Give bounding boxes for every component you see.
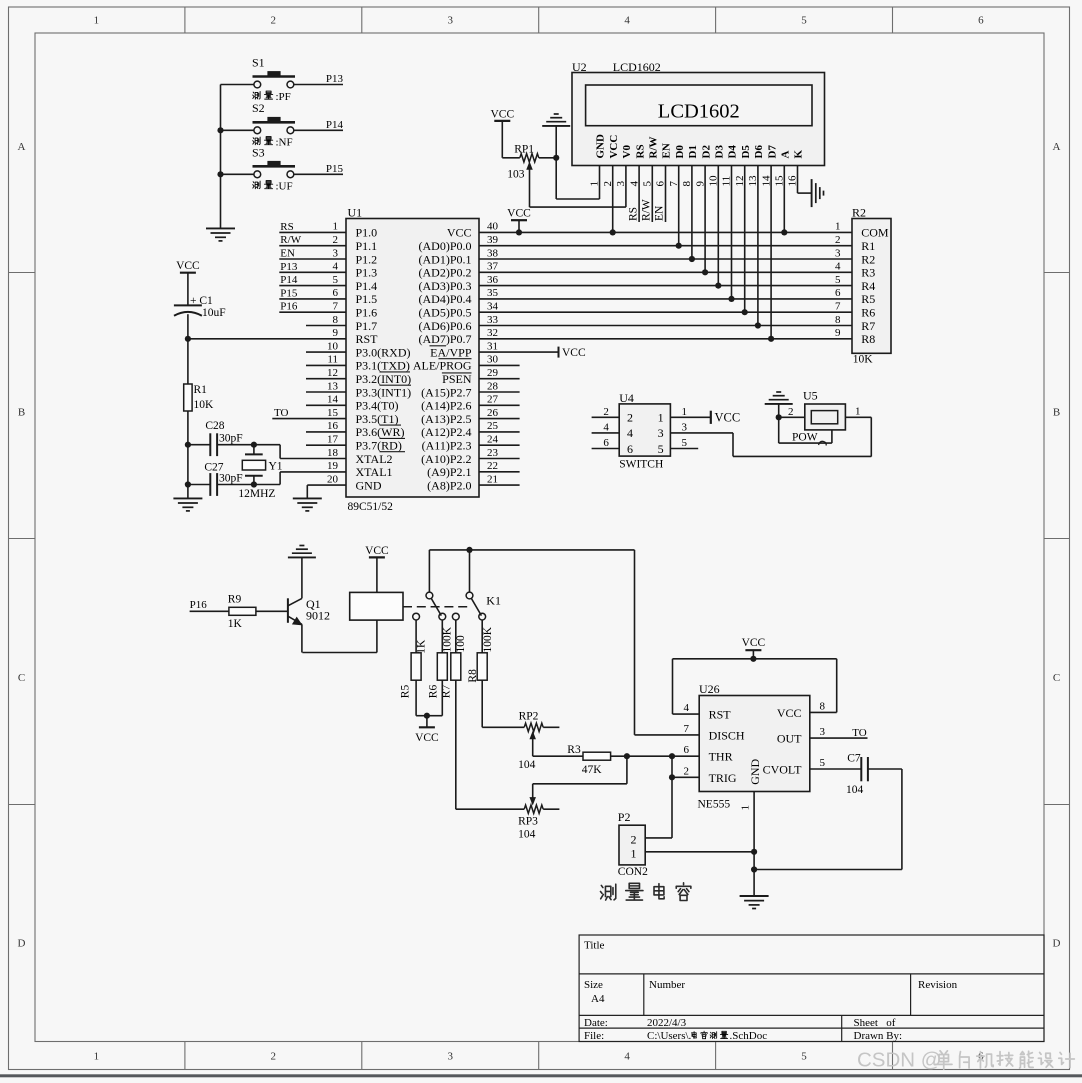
wire RP2 wiper to R3 xyxy=(533,755,583,757)
relay contact pole A xyxy=(426,592,433,599)
svg-text:89C51/52: 89C51/52 xyxy=(348,501,394,513)
svg-text:SWITCH: SWITCH xyxy=(619,459,663,471)
svg-text:23: 23 xyxy=(487,447,499,459)
junction D7 xyxy=(768,336,774,342)
svg-text:P3.4(T0): P3.4(T0) xyxy=(356,399,399,413)
wire LCD pin3 V0 to RP1 wiper xyxy=(625,166,627,208)
wire RP3 right open xyxy=(543,808,559,810)
svg-text:P1.6: P1.6 xyxy=(356,306,378,320)
svg-text:R6: R6 xyxy=(861,306,875,320)
wire crystal bottom to U1 XTAL1 xyxy=(279,472,281,485)
junction D1 xyxy=(689,256,695,262)
potentiometer RP2 xyxy=(524,723,543,731)
svg-text:7: 7 xyxy=(684,723,690,735)
svg-text:38: 38 xyxy=(487,247,499,259)
junction D4 xyxy=(728,296,734,302)
svg-text:CVOLT: CVOLT xyxy=(763,762,803,776)
svg-text:P3.3(INT1): P3.3(INT1) xyxy=(356,385,412,399)
svg-text:R4: R4 xyxy=(861,279,875,293)
wire K1 contact to R8 xyxy=(481,620,483,653)
svg-text:P3.1(TXD): P3.1(TXD) xyxy=(356,359,410,373)
junction D6 xyxy=(755,322,761,328)
svg-text:C: C xyxy=(1053,672,1060,684)
svg-text:EN: EN xyxy=(654,205,666,221)
wire crystal top to U1 XTAL2 xyxy=(279,445,281,459)
wire LCD pin11 D4 to rail6 xyxy=(731,166,733,299)
svg-text:104: 104 xyxy=(846,784,864,796)
wire NE555 GND pin xyxy=(753,792,755,870)
svg-text:32: 32 xyxy=(487,327,498,339)
pin stub U1 pin16 xyxy=(306,431,346,433)
wire RP1 right to gnd stem xyxy=(539,157,556,159)
svg-text:(AD0)P0.0: (AD0)P0.0 xyxy=(419,239,472,253)
svg-text:Sheet of: Sheet of xyxy=(854,1017,896,1029)
svg-text:P16: P16 xyxy=(190,599,208,611)
resistor R5 xyxy=(411,653,421,680)
svg-text:EN: EN xyxy=(280,248,295,260)
svg-text:P3.5(T1): P3.5(T1) xyxy=(356,412,399,426)
svg-text:Drawn By:: Drawn By: xyxy=(854,1030,903,1042)
svg-text:P1.0: P1.0 xyxy=(356,226,378,240)
svg-text:9: 9 xyxy=(835,327,841,339)
svg-text:R8: R8 xyxy=(861,332,875,346)
svg-text:24: 24 xyxy=(487,434,499,446)
svg-text:VCC: VCC xyxy=(507,208,531,220)
pin stub U1 pin25 xyxy=(479,431,520,433)
svg-text:R/W: R/W xyxy=(648,137,660,159)
svg-text:S3: S3 xyxy=(252,145,265,159)
svg-text:28: 28 xyxy=(487,380,499,392)
svg-text:RS: RS xyxy=(627,207,639,221)
svg-text:THR: THR xyxy=(709,750,733,764)
svg-text:R1: R1 xyxy=(861,239,875,253)
relay coil K1 xyxy=(350,592,403,620)
wire VCC to RP1 xyxy=(501,121,503,158)
junction P2 pin1 xyxy=(751,849,757,855)
svg-text:P15: P15 xyxy=(280,287,298,299)
capacitor C28 xyxy=(188,444,210,446)
svg-text:4: 4 xyxy=(835,261,841,273)
wire P0 rail row7 xyxy=(479,311,852,313)
svg-text:21: 21 xyxy=(487,473,498,485)
svg-text:P1.7: P1.7 xyxy=(356,319,378,333)
dashed link relay to contacts xyxy=(403,606,469,608)
svg-text:35: 35 xyxy=(487,287,499,299)
junction THR node xyxy=(669,753,675,759)
wire K1 contact to R7 xyxy=(455,620,457,653)
wire ground to U5 pin2 xyxy=(778,404,780,417)
wire Q1 emitter to ground xyxy=(301,557,303,598)
junction pole B rail xyxy=(466,547,472,553)
pin stub U1 pin12 xyxy=(306,378,346,380)
svg-text:P1.5: P1.5 xyxy=(356,292,378,306)
svg-text:2: 2 xyxy=(835,234,841,246)
svg-text:VCC: VCC xyxy=(176,260,200,272)
pin stub U1 pin22 xyxy=(479,471,520,473)
svg-text:VCC: VCC xyxy=(742,637,766,649)
svg-text:5: 5 xyxy=(333,274,339,286)
wire P13 from S1 xyxy=(221,84,254,86)
wire OUT pin3 net TO xyxy=(810,737,868,739)
wire rail to RST pin4 xyxy=(672,659,674,714)
svg-text:33: 33 xyxy=(487,314,499,326)
svg-text:(AD3)P0.3: (AD3)P0.3 xyxy=(419,279,472,293)
wire R3 node down to RP3 wiper xyxy=(626,756,628,784)
wire R7 down to RP3 xyxy=(455,680,457,809)
junction crystal top xyxy=(251,442,257,448)
wire R5 to VCC node xyxy=(415,680,417,716)
svg-text:12: 12 xyxy=(327,367,338,379)
svg-text:100K: 100K xyxy=(482,626,494,652)
ground NE555 xyxy=(753,870,755,897)
svg-text:30: 30 xyxy=(487,354,499,366)
svg-text:RP1: RP1 xyxy=(514,143,534,155)
svg-text:13: 13 xyxy=(327,380,339,392)
svg-text:22: 22 xyxy=(487,460,498,472)
svg-text:D: D xyxy=(18,938,26,950)
svg-text:104: 104 xyxy=(518,759,536,771)
RP3 wiper arrow xyxy=(529,797,536,806)
capacitor C27 xyxy=(188,484,210,486)
svg-text:19: 19 xyxy=(327,460,339,472)
wire P0 rail row4 xyxy=(479,271,852,273)
svg-text:S1: S1 xyxy=(252,56,265,70)
pin stub U1 pin30 xyxy=(479,364,520,366)
svg-text:1: 1 xyxy=(658,411,664,425)
svg-text:20: 20 xyxy=(327,473,339,485)
wire K1 contact to R6 xyxy=(441,620,443,653)
wire CVOLT pin5 to C7 xyxy=(810,768,862,770)
wire switch common bus xyxy=(220,85,222,229)
pin stub U4 pin5 xyxy=(670,448,698,450)
svg-text:1: 1 xyxy=(94,15,100,27)
svg-text:.SchDoc: .SchDoc xyxy=(730,1030,768,1042)
svg-text:(A15)P2.7: (A15)P2.7 xyxy=(421,385,471,399)
svg-text:Size: Size xyxy=(584,979,603,991)
wire P15 from S3 xyxy=(221,173,254,175)
svg-text:(AD7)P0.7: (AD7)P0.7 xyxy=(419,332,472,346)
svg-text:R7: R7 xyxy=(861,319,875,333)
ground LCD pin1 (flipped) xyxy=(542,125,570,127)
svg-text:1: 1 xyxy=(855,406,861,418)
svg-text:R6: R6 xyxy=(427,685,439,699)
svg-text:U5: U5 xyxy=(803,388,818,402)
svg-text:RST: RST xyxy=(356,332,379,346)
wire C28 to crystal top node xyxy=(217,444,280,446)
wire U1 pin31 EA to VCC xyxy=(479,351,559,353)
svg-text:VCC: VCC xyxy=(415,732,439,744)
resistor R6 xyxy=(437,653,447,680)
svg-text:17: 17 xyxy=(327,434,339,446)
wire LCD pin6 net EN xyxy=(665,166,667,223)
svg-text:XTAL2: XTAL2 xyxy=(356,452,393,466)
relay contact pole B xyxy=(466,592,473,599)
wire RST node to U1 pin9 xyxy=(188,338,346,340)
wire RP2 right open xyxy=(543,726,559,728)
svg-text:V0: V0 xyxy=(621,145,633,159)
svg-text:6: 6 xyxy=(684,744,690,756)
resistor R7 xyxy=(451,653,461,680)
ground LCD pin16 (sideways) xyxy=(811,179,813,207)
svg-text:EN: EN xyxy=(661,143,673,158)
svg-text:37: 37 xyxy=(487,261,499,273)
svg-text:(A11)P2.3: (A11)P2.3 xyxy=(422,439,472,453)
wire P0 rail row5 xyxy=(479,285,852,287)
svg-text:DISCH: DISCH xyxy=(709,729,745,743)
wire P0 rail row3 xyxy=(479,258,852,260)
svg-text:(A10)P2.2: (A10)P2.2 xyxy=(421,452,471,466)
pin stub U1 pin10 xyxy=(306,351,346,353)
wire R3 to THR node xyxy=(611,755,700,757)
wire bottom rail xyxy=(754,869,902,871)
svg-text:(A12)P2.4: (A12)P2.4 xyxy=(421,425,471,439)
svg-text:10uF: 10uF xyxy=(202,307,226,319)
svg-text:16: 16 xyxy=(327,420,339,432)
wire U1 pin7 net P16 xyxy=(279,311,346,313)
svg-text:3: 3 xyxy=(333,247,339,259)
svg-text:VCC: VCC xyxy=(715,411,741,425)
svg-text:36: 36 xyxy=(487,274,499,286)
svg-text:D7: D7 xyxy=(766,145,778,159)
svg-text:D1: D1 xyxy=(687,145,699,158)
svg-text:P2: P2 xyxy=(618,810,631,824)
svg-text:(AD2)P0.2: (AD2)P0.2 xyxy=(419,266,472,280)
junction VCC on rail1 xyxy=(516,229,522,235)
svg-text:TO: TO xyxy=(852,727,867,739)
svg-text:B: B xyxy=(1053,407,1060,419)
svg-text:D5: D5 xyxy=(740,145,752,159)
wire R8 down to RP2 xyxy=(481,680,483,727)
resistor R1 xyxy=(184,384,192,411)
svg-text:3: 3 xyxy=(447,15,453,27)
svg-text:P15: P15 xyxy=(326,163,344,175)
resistor network R2 xyxy=(852,219,891,354)
svg-text:Revision: Revision xyxy=(918,979,958,991)
svg-text:R5: R5 xyxy=(400,685,412,699)
svg-text:10K: 10K xyxy=(853,354,874,366)
wire P2 pin2 to TRIG xyxy=(645,837,672,839)
svg-text:R1: R1 xyxy=(194,384,208,396)
switch S2 xyxy=(253,121,296,124)
svg-text:Y1: Y1 xyxy=(269,461,283,473)
svg-text:VCC: VCC xyxy=(490,108,514,120)
svg-text:VCC: VCC xyxy=(365,545,389,557)
svg-text:K1: K1 xyxy=(486,594,501,608)
svg-text:A4: A4 xyxy=(591,993,605,1005)
junction S2 bus xyxy=(217,127,223,133)
svg-text:CSDN @: CSDN @ xyxy=(857,1049,942,1072)
bottom window bar xyxy=(0,1074,1082,1077)
svg-text:39: 39 xyxy=(487,234,499,246)
svg-text:XTAL1: XTAL1 xyxy=(356,465,393,479)
svg-text:File:: File: xyxy=(584,1030,604,1042)
wire K1 common rail xyxy=(429,549,634,551)
svg-text:(AD4)P0.4: (AD4)P0.4 xyxy=(419,292,472,306)
capacitor C7 xyxy=(860,757,862,781)
svg-text:1: 1 xyxy=(739,805,751,811)
svg-text:6: 6 xyxy=(333,287,339,299)
ground left rail xyxy=(173,497,202,499)
junction RST node xyxy=(185,336,191,342)
svg-text:D2: D2 xyxy=(700,145,712,159)
junction LCD A rail1 xyxy=(781,229,787,235)
svg-text:11: 11 xyxy=(327,354,338,366)
svg-text:RP3: RP3 xyxy=(518,815,538,827)
svg-text:B: B xyxy=(18,407,25,419)
svg-text:1K: 1K xyxy=(228,618,243,630)
wire C1 to R1 xyxy=(187,314,189,384)
wire LCD pin2 VCC xyxy=(612,166,614,233)
pin stub U1 pin29 xyxy=(479,378,520,380)
svg-text:U26: U26 xyxy=(699,682,720,696)
svg-text:14: 14 xyxy=(327,394,339,406)
pin stub U1 pin26 xyxy=(479,418,520,420)
wire U1 pin5 net P14 xyxy=(279,285,346,287)
svg-text:2: 2 xyxy=(627,411,633,425)
svg-text:U1: U1 xyxy=(348,206,363,220)
svg-text:12MHZ: 12MHZ xyxy=(238,488,275,500)
junction S3 bus xyxy=(217,171,223,177)
svg-text:9: 9 xyxy=(333,327,339,339)
svg-text:Number: Number xyxy=(649,979,685,991)
junction bottom rail xyxy=(751,866,757,872)
svg-text:2022/4/3: 2022/4/3 xyxy=(647,1017,687,1029)
svg-text:100K: 100K xyxy=(442,626,454,652)
wire Q1 collector down xyxy=(301,624,303,652)
pin stub U1 pin14 xyxy=(306,404,346,406)
svg-text:6: 6 xyxy=(835,287,841,299)
connector P2 CON2 xyxy=(619,825,645,865)
junction VCC rail xyxy=(750,656,756,662)
svg-text:18: 18 xyxy=(327,447,339,459)
svg-text:R/W: R/W xyxy=(641,199,653,221)
wire LCD pin5 net R/W xyxy=(651,166,653,223)
svg-text:1: 1 xyxy=(631,846,637,860)
svg-text:A: A xyxy=(18,141,26,153)
svg-text:K: K xyxy=(793,150,805,159)
svg-text:4: 4 xyxy=(684,702,690,714)
wire U1 pin3 net EN xyxy=(279,258,346,260)
wire LCD pin4 net RS xyxy=(638,166,640,223)
svg-text:GND: GND xyxy=(595,134,607,159)
junction LCD VCC rail1 xyxy=(610,229,616,235)
svg-text:P1.2: P1.2 xyxy=(356,252,378,266)
svg-text:27: 27 xyxy=(487,394,499,406)
svg-text:P3.0(RXD): P3.0(RXD) xyxy=(356,345,411,359)
wire U4 left pin 4 xyxy=(592,432,620,434)
svg-text:3: 3 xyxy=(658,426,664,440)
svg-text:A: A xyxy=(1053,141,1061,153)
svg-text:8: 8 xyxy=(333,314,339,326)
wire P0 rail row8 xyxy=(479,325,852,327)
junction D5 xyxy=(742,309,748,315)
svg-text:(AD1)P0.1: (AD1)P0.1 xyxy=(419,252,472,266)
svg-text::UF: :UF xyxy=(276,181,293,193)
svg-text:R3: R3 xyxy=(861,266,875,280)
svg-text:7: 7 xyxy=(835,301,841,313)
power port VCC left rail xyxy=(180,272,196,274)
svg-text:5: 5 xyxy=(820,757,826,769)
svg-text:TRIG: TRIG xyxy=(709,771,737,785)
pin stub U1 pin11 xyxy=(306,364,346,366)
svg-text:4: 4 xyxy=(333,261,339,273)
svg-text:P14: P14 xyxy=(326,119,344,131)
svg-text:P1.4: P1.4 xyxy=(356,279,378,293)
svg-text:2: 2 xyxy=(788,406,794,418)
svg-text:31: 31 xyxy=(487,340,498,352)
pin stub U1 pin28 xyxy=(479,391,520,393)
svg-text:R2: R2 xyxy=(852,206,866,220)
svg-text:2: 2 xyxy=(333,234,339,246)
wire R9 to Q1 base xyxy=(256,610,288,612)
wire collector to relay coil xyxy=(302,652,377,654)
svg-text:2: 2 xyxy=(631,833,637,847)
wire gnd stem xyxy=(555,126,557,199)
svg-text:2: 2 xyxy=(271,15,277,27)
wire P0 rail row9 xyxy=(479,338,852,340)
svg-text:8: 8 xyxy=(820,700,826,712)
svg-text:NE555: NE555 xyxy=(698,799,731,811)
svg-text:LCD1602: LCD1602 xyxy=(613,60,661,74)
svg-text:C7: C7 xyxy=(847,753,861,765)
svg-text:RS: RS xyxy=(280,221,293,233)
svg-text:103: 103 xyxy=(507,168,525,180)
pin stub U1 pin27 xyxy=(479,404,520,406)
svg-text:D6: D6 xyxy=(753,145,765,159)
junction D2 xyxy=(702,269,708,275)
svg-text:+ C1: + C1 xyxy=(190,295,213,307)
svg-text:LCD1602: LCD1602 xyxy=(658,101,740,123)
svg-text:4: 4 xyxy=(624,1051,630,1063)
svg-text:U2: U2 xyxy=(572,60,587,74)
wire U4 pin3 to U5 pin1 xyxy=(670,432,733,434)
wire P0 rail row2 xyxy=(479,245,852,247)
caption measure capacitance xyxy=(601,884,616,900)
svg-text:5: 5 xyxy=(801,15,807,27)
junction crystal bottom xyxy=(251,481,257,487)
svg-text:R5: R5 xyxy=(861,292,875,306)
wire LCD pin16 K to ground xyxy=(797,166,799,194)
wire LCD pin14 D7 to rail9 xyxy=(770,166,772,339)
svg-text:5: 5 xyxy=(835,274,841,286)
svg-text:P3.2(INT0): P3.2(INT0) xyxy=(356,372,412,386)
wire LCD pin7 D0 to rail2 xyxy=(678,166,680,246)
svg-text:A: A xyxy=(780,151,792,159)
resistor R9 xyxy=(229,607,256,615)
potentiometer RP3 xyxy=(524,805,543,813)
junction R3 node xyxy=(624,753,630,759)
svg-text:P16: P16 xyxy=(280,301,298,313)
power port VCC pin40 rail xyxy=(511,219,527,221)
svg-text:104: 104 xyxy=(518,829,536,841)
svg-text:4: 4 xyxy=(603,422,609,434)
svg-text:ALE/PROG: ALE/PROG xyxy=(413,359,472,373)
svg-text:10: 10 xyxy=(327,340,339,352)
svg-text:3: 3 xyxy=(447,1051,453,1063)
svg-text:6: 6 xyxy=(627,442,633,456)
RP2 wiper arrow xyxy=(529,731,536,740)
wire NE555 VCC rail xyxy=(673,658,837,660)
svg-text:26: 26 xyxy=(487,407,499,419)
wire U5 pin2 loop to box bottom xyxy=(778,417,780,443)
pin stub U1 pin23 xyxy=(479,458,520,460)
wire VCC to relay coil xyxy=(376,557,378,592)
wire U1 pin6 net P15 xyxy=(279,298,346,300)
svg-text:3: 3 xyxy=(835,247,841,259)
pin stub U1 pin21 xyxy=(479,484,520,486)
wire K1 contact to R5 xyxy=(415,620,417,653)
svg-text:CON2: CON2 xyxy=(618,866,648,878)
